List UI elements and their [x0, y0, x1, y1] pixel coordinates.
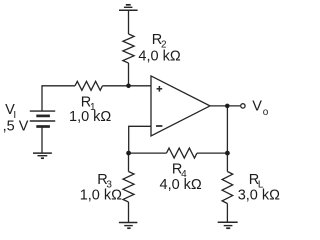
svg-text:4,0 kΩ: 4,0 kΩ: [138, 49, 180, 65]
minus input marker: [156, 125, 162, 127]
svg-text:3,0 kΩ: 3,0 kΩ: [238, 187, 280, 203]
ground (R3): [119, 223, 137, 229]
wire (battery - to ground): [41, 127, 43, 154]
ground (RL): [218, 222, 238, 228]
wire (top rail to R1): [41, 85, 75, 87]
wire (battery + up to top rail): [41, 86, 43, 111]
node B (junction dot): [126, 151, 131, 156]
wire (node C to RL): [226, 153, 228, 171]
node C (junction dot): [225, 151, 230, 156]
wire (RL to ground): [226, 204, 228, 223]
svg-text:1,0 kΩ: 1,0 kΩ: [69, 109, 111, 125]
plus input marker: [157, 86, 163, 92]
wire (node B to R4): [129, 152, 167, 154]
resistor RL: [222, 172, 233, 204]
output node junction dot: [225, 104, 230, 109]
svg-text:Vo: Vo: [252, 99, 269, 118]
svg-text:,5 V: ,5 V: [3, 118, 29, 134]
ground (top, inverted): [119, 5, 138, 10]
wire (R3 to ground): [128, 202, 130, 223]
wire (output node down to node C): [226, 106, 228, 153]
svg-text:1,0 kΩ: 1,0 kΩ: [80, 187, 122, 203]
wire (node B to R3): [128, 153, 130, 171]
battery VI: [30, 111, 55, 126]
resistor R4: [167, 148, 198, 158]
wire (op-amp output to terminal): [210, 105, 240, 107]
wire (top ground to R2): [128, 10, 130, 34]
node A (junction dot): [126, 84, 131, 89]
svg-text:4,0 kΩ: 4,0 kΩ: [160, 177, 202, 193]
resistor R3: [123, 172, 134, 203]
wire (op-amp - input to node B): [129, 126, 151, 153]
wire (R4 to node C): [197, 152, 227, 154]
op-amp U1: [151, 76, 210, 136]
wire (R1 to op-amp + input through node A): [103, 85, 152, 87]
output terminal (open circle): [241, 104, 245, 108]
resistor R1: [75, 81, 103, 90]
wire (R2 to node A): [128, 63, 130, 86]
resistor R2: [123, 34, 134, 63]
ground (battery): [33, 153, 52, 158]
